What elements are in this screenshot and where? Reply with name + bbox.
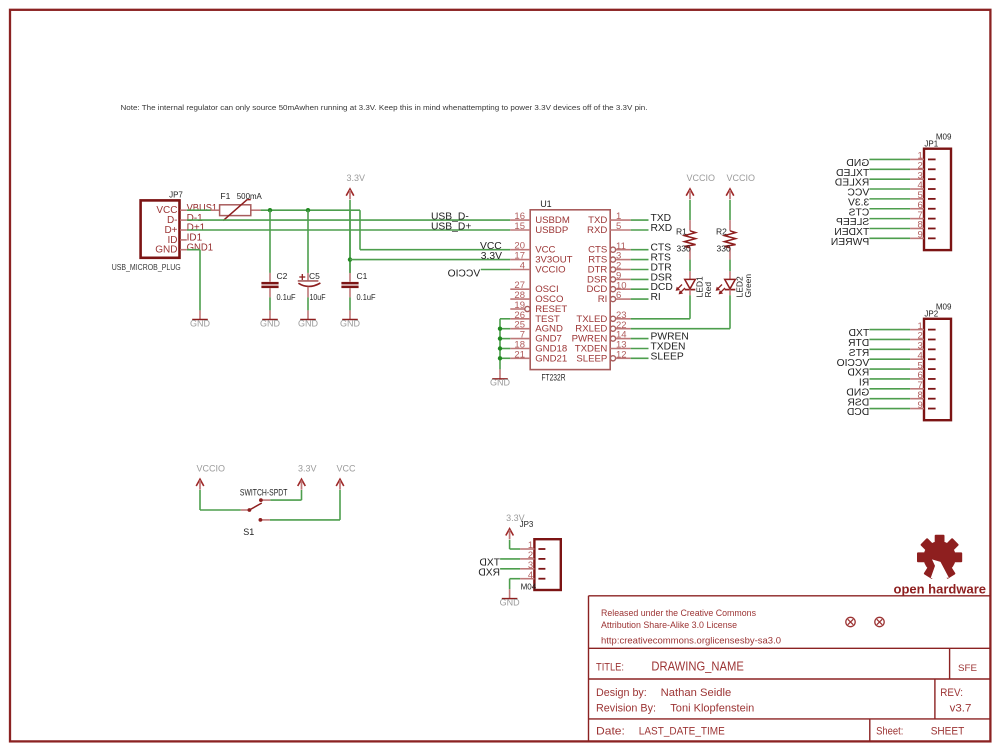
JP1 pin 3 RXLED	[910, 178, 924, 180]
svg-text:VCCIO: VCCIO	[197, 463, 226, 473]
wire and net label DTR	[631, 269, 649, 271]
svg-text:FT232R: FT232R	[542, 373, 566, 383]
U1 pin 25 AGND	[510, 328, 530, 330]
svg-text:5: 5	[616, 221, 621, 232]
svg-text:6: 6	[616, 290, 621, 301]
U1 pin 20 VCC	[510, 249, 530, 251]
wire and net label RXD	[631, 229, 649, 231]
U1 pin 23 TXLED	[610, 316, 615, 321]
U1 pin 12 SLEEP	[610, 356, 615, 361]
JP3 pin 1	[520, 548, 534, 550]
JP2 pin 6 RI	[910, 378, 924, 380]
JP2 pin 3 RTS	[910, 348, 924, 350]
svg-text:USBDP: USBDP	[535, 225, 568, 236]
JP1 pin 5 3.3V	[910, 198, 924, 200]
svg-text:Note: The internal regulator c: Note: The internal regulator can only so…	[121, 103, 648, 112]
svg-text:LAST_DATE_TIME: LAST_DATE_TIME	[639, 726, 725, 738]
LED LED1 Red	[689, 271, 691, 279]
svg-text:3.3V: 3.3V	[481, 251, 502, 262]
svg-text:VCCIO: VCCIO	[535, 265, 565, 276]
switch S1 SWITCH-SPDT	[241, 509, 250, 511]
U1 pin 28 OSCO	[510, 298, 530, 300]
wire JP3 pin4 to ground	[510, 578, 520, 580]
JP2 pin 5 RXD	[910, 368, 924, 370]
svg-text:12: 12	[616, 349, 627, 360]
svg-text:Green: Green	[743, 274, 753, 298]
power symbol 3.3V	[298, 479, 306, 486]
JP3 pin 2	[520, 558, 534, 560]
svg-text:http:creativecommons.orglicens: http:creativecommons.orglicensesby-sa3.0	[601, 636, 781, 646]
circled x symbols	[846, 617, 855, 626]
svg-text:Date:: Date:	[596, 726, 625, 738]
svg-text:U1: U1	[540, 199, 552, 209]
svg-text:330: 330	[717, 244, 731, 254]
wire VBUS corner down	[359, 210, 361, 250]
wire and net label TXDEN	[631, 348, 649, 350]
svg-text:USB_MICROB_PLUG: USB_MICROB_PLUG	[112, 263, 181, 272]
svg-text:DCD: DCD	[847, 407, 869, 418]
JP3 pin 3	[520, 568, 534, 570]
JP2 pin 7 GND	[910, 388, 924, 390]
wire TXLED to LED1	[631, 318, 690, 320]
U1 pin 22 RXLED	[610, 326, 615, 331]
JP7 pin D+	[180, 229, 187, 231]
wire VCC from JP7 to fuse	[187, 209, 211, 211]
JP1 pin 4 VCC	[910, 188, 924, 190]
wire VCCIO to S1 pole	[199, 490, 201, 510]
svg-text:21: 21	[514, 349, 525, 360]
power symbol 3.3V	[506, 529, 514, 536]
svg-text:SLEEP: SLEEP	[576, 353, 607, 364]
wire and net label RI	[631, 298, 649, 300]
svg-text:VCC: VCC	[337, 463, 357, 473]
svg-text:0.1uF: 0.1uF	[277, 293, 296, 302]
wire and net label DCD	[631, 288, 649, 290]
svg-text:R1: R1	[676, 227, 687, 237]
svg-text:R2: R2	[716, 227, 727, 237]
JP2 pin 2 DTR	[910, 338, 924, 340]
JP2 pin 1 TXD	[910, 329, 924, 331]
connector JP3 M04 body	[534, 539, 560, 590]
svg-text:0.1uF: 0.1uF	[357, 293, 376, 302]
JP1 pin 9 PWREN	[910, 237, 924, 239]
JP1 pin 2 TXLED	[910, 168, 924, 170]
svg-text:Revision By:: Revision By:	[596, 702, 656, 714]
JP1 pin 1 GND	[910, 158, 924, 160]
svg-text:GND: GND	[500, 597, 521, 607]
svg-text:JP3: JP3	[520, 520, 534, 529]
node junction GND7	[498, 336, 502, 340]
JP2 pin 4 VCCIO	[910, 358, 924, 360]
svg-text:330: 330	[677, 244, 691, 254]
JP7 pin VCC	[180, 209, 187, 211]
wire RXLED to LED2	[631, 328, 730, 330]
U1 pin 14 PWREN	[610, 336, 615, 341]
svg-text:C5: C5	[309, 271, 320, 281]
svg-text:Sheet:: Sheet:	[876, 726, 903, 738]
ground symbol at JP7	[199, 310, 201, 319]
capacitor C1 0.1uF	[349, 210, 351, 273]
svg-text:Attribution Share-Alike 3.0 Li: Attribution Share-Alike 3.0 License	[601, 620, 737, 630]
fuse F1 500mA	[211, 209, 220, 211]
open hardware logo	[917, 535, 962, 579]
svg-text:M04: M04	[521, 582, 537, 591]
power symbol VCCIO	[686, 189, 694, 196]
svg-text:TITLE:: TITLE:	[596, 662, 624, 674]
svg-text:VCCIO: VCCIO	[448, 268, 481, 279]
wire VBUS fuse to corner	[261, 209, 360, 211]
svg-text:JP7: JP7	[169, 190, 183, 199]
svg-text:DRAWING_NAME: DRAWING_NAME	[651, 660, 743, 674]
ground symbol below C2	[269, 310, 271, 319]
svg-text:USB_D+: USB_D+	[431, 221, 471, 232]
U1 pin 19 RESET	[510, 308, 525, 310]
U1 pin 13 TXDEN	[610, 348, 631, 350]
node junction GND18	[498, 346, 502, 350]
U1 pin 16 USBDM	[510, 219, 530, 221]
svg-text:Red: Red	[703, 282, 713, 298]
resistor R2 330	[729, 220, 731, 231]
U1 pin 11 CTS	[610, 247, 615, 252]
svg-text:3.3V: 3.3V	[347, 173, 366, 183]
power symbol VCC	[336, 479, 344, 486]
svg-text:9: 9	[918, 230, 923, 241]
svg-text:GND: GND	[190, 318, 211, 328]
svg-text:C2: C2	[277, 271, 288, 281]
svg-text:SWITCH-SPDT: SWITCH-SPDT	[240, 487, 288, 497]
connector JP1 M09 body	[924, 149, 951, 250]
wire TEST/AGND/GND bus	[500, 318, 510, 320]
U1 pin 9 DSR	[610, 277, 615, 282]
svg-text:10uF: 10uF	[310, 293, 326, 302]
svg-text:RI: RI	[598, 294, 608, 305]
svg-text:REV:: REV:	[940, 687, 963, 699]
svg-text:GND: GND	[155, 245, 177, 256]
U1 pin 2 DTR	[610, 267, 615, 272]
svg-text:PWREN: PWREN	[831, 237, 869, 248]
svg-text:GND: GND	[298, 318, 319, 328]
svg-text:GND: GND	[340, 318, 361, 328]
svg-text:GND: GND	[490, 378, 511, 388]
svg-text:RXD: RXD	[651, 223, 673, 234]
U1 pin 7 GND7	[510, 338, 530, 340]
JP7 pin GND	[180, 249, 187, 251]
svg-text:open hardware: open hardware	[894, 581, 987, 596]
ground symbol below C5	[307, 310, 309, 319]
LED LED2 Green	[729, 271, 731, 279]
svg-text:Design by:: Design by:	[596, 687, 647, 699]
resistor R1 330	[689, 220, 691, 231]
svg-text:GND21: GND21	[535, 353, 567, 364]
svg-text:F1: F1	[220, 191, 230, 201]
svg-text:500mA: 500mA	[237, 191, 262, 201]
title block frame	[589, 595, 991, 597]
connector JP7 USB_MICROB_PLUG body	[141, 200, 180, 257]
node junction GND21	[498, 356, 502, 360]
svg-text:M09: M09	[936, 133, 952, 142]
svg-text:S1: S1	[243, 527, 254, 537]
wire VCC to U1 pin20	[360, 249, 510, 251]
svg-text:Released under the Creative Co: Released under the Creative Commons	[601, 608, 756, 618]
wire VCC to S1 throw2	[339, 490, 341, 520]
svg-text:3.3V: 3.3V	[298, 463, 317, 473]
wire GND1 to ground	[187, 249, 200, 251]
svg-text:VCCIO: VCCIO	[727, 173, 756, 183]
svg-text:JP1: JP1	[924, 140, 938, 149]
wire 3V3OUT to U1 pin17	[350, 259, 510, 261]
svg-text:v3.7: v3.7	[950, 702, 972, 714]
svg-text:SFE: SFE	[958, 663, 977, 674]
svg-text:RXD: RXD	[478, 567, 500, 578]
node junction 3V3OUT	[348, 257, 352, 261]
svg-text:C1: C1	[357, 271, 368, 281]
wire and net label SLEEP	[631, 357, 649, 359]
U1 pin 6 RI	[610, 297, 615, 302]
U1 pin 21 GND21	[510, 357, 530, 359]
svg-text:Nathan Seidle: Nathan Seidle	[661, 687, 732, 699]
JP1 pin 8 TXDEN	[910, 227, 924, 229]
power symbol VCCIO	[196, 479, 204, 486]
wire 3.3V stem	[349, 200, 351, 273]
wire TXD to JP3 pin2	[500, 558, 520, 560]
node junction C2 top	[268, 208, 272, 212]
U1 pin 4 VCCIO	[510, 269, 530, 271]
capacitor C2 0.1uF	[269, 210, 271, 273]
svg-text:SLEEP: SLEEP	[651, 351, 684, 362]
ground symbol below JP3	[509, 589, 511, 598]
wire and net label CTS	[631, 249, 649, 251]
ground symbol below C1	[349, 310, 351, 319]
U1 pin 1 TXD	[610, 219, 631, 221]
JP7 pin ID	[180, 239, 187, 241]
wire USB_D- run	[187, 219, 511, 221]
JP3 pin 4	[520, 578, 534, 580]
wire R2 to LED2	[729, 260, 731, 272]
U1 pin 15 USBDP	[510, 229, 530, 231]
node junction AGND	[498, 327, 502, 331]
wire and net label PWREN	[631, 338, 649, 340]
U1 pin 3 RTS	[610, 257, 615, 262]
JP1 pin 7 SLEEP	[910, 218, 924, 220]
wire R1 to LED1	[689, 260, 691, 272]
svg-text:4: 4	[520, 261, 525, 272]
op-amp U1 FT232R body	[530, 210, 610, 370]
svg-text:15: 15	[514, 221, 525, 232]
wire 3.3V to JP3 pin1	[509, 540, 511, 549]
connector JP2 M09 body	[924, 319, 951, 420]
JP1 pin 6 CTS	[910, 208, 924, 210]
ground symbol below U1	[499, 369, 501, 379]
svg-text:4: 4	[528, 570, 533, 581]
wire and net label RTS	[631, 259, 649, 261]
wire USB_D+ run	[187, 229, 511, 231]
svg-text:9: 9	[918, 400, 923, 411]
wire C5 top	[307, 210, 309, 273]
capacitor C5 10uF polarized	[307, 273, 309, 281]
U1 pin 17 3V3OUT	[510, 259, 530, 261]
JP2 pin 8 DSR	[910, 398, 924, 400]
svg-text:RI: RI	[651, 292, 661, 303]
U1 pin 26 TEST	[510, 318, 530, 320]
svg-text:VCCIO: VCCIO	[687, 173, 716, 183]
svg-text:M09: M09	[936, 303, 952, 312]
wire 3.3V to S1 throw1	[301, 490, 303, 500]
wire VCCIO to U1 pin4	[481, 269, 511, 271]
svg-text:Toni Klopfenstein: Toni Klopfenstein	[670, 702, 754, 714]
U1 pin 5 RXD	[610, 229, 631, 231]
node junction C5 top	[306, 208, 310, 212]
JP7 pin D-	[180, 219, 187, 221]
svg-text:JP2: JP2	[924, 310, 938, 319]
U1 pin 10 DCD	[610, 287, 615, 292]
wire RXD to JP3 pin3	[500, 568, 520, 570]
U1 pin 18 GND18	[510, 348, 530, 350]
wire and net label DSR	[631, 278, 649, 280]
power symbol 3.3V	[346, 189, 354, 196]
power symbol VCCIO	[726, 189, 734, 196]
svg-text:SHEET: SHEET	[931, 726, 965, 738]
svg-text:GND: GND	[260, 318, 281, 328]
U1 pin 27 OSCI	[510, 288, 530, 290]
wire and net label TXD	[631, 219, 649, 221]
JP2 pin 9 DCD	[910, 408, 924, 410]
svg-text:RXD: RXD	[587, 225, 607, 236]
